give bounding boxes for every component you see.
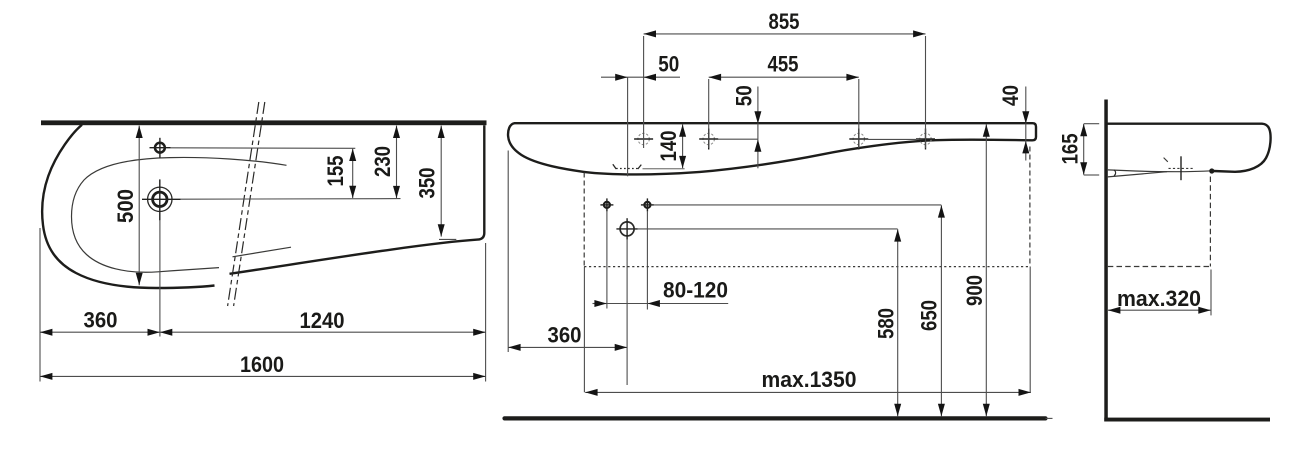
svg-text:650: 650 (917, 300, 942, 331)
dimension 1240 (plan) (160, 308, 486, 333)
mounting hole 2 (front) (699, 129, 718, 150)
svg-text:max.320: max.320 (1117, 286, 1201, 311)
dimension 230 (plan) (370, 126, 397, 199)
extension line left edge (plan) (39, 228, 41, 382)
dimension 350 (plan) (415, 126, 457, 240)
extension line through hole1 (855/50) (643, 36, 645, 148)
mounting hole 3 (front) (849, 129, 868, 150)
extension line right edge (plan) (485, 243, 487, 382)
dotted installation depth line (front) (584, 266, 1030, 268)
drain connection circle (front, in-wall) (616, 218, 637, 239)
hidden faucet hole centerline (side view) (1164, 156, 1194, 180)
svg-text:140: 140 (656, 131, 681, 162)
drain outlet tick (side view) (1114, 170, 1116, 176)
svg-text:80-120: 80-120 (663, 278, 728, 303)
dashed depth lines (side view) (1108, 177, 1211, 316)
wall fixing cross 2 (front, in-wall) (641, 198, 654, 211)
svg-text:1240: 1240 (300, 308, 345, 333)
drain leader line to 230 dim (181, 198, 401, 201)
dimension 500 (plan) (113, 126, 139, 286)
svg-text:350: 350 (415, 168, 440, 199)
faucet leader line to 155 dim (171, 147, 356, 150)
svg-text:580: 580 (874, 308, 899, 339)
faucet hole (plan) (150, 138, 171, 158)
svg-text:50: 50 (732, 85, 757, 106)
floor line (front) (505, 416, 1053, 420)
leader cross2 to 650 dim (654, 204, 941, 206)
leader hole3 to hole4 (868, 138, 916, 140)
basin profile (side view) (1106, 124, 1271, 177)
leader hole2 to 50 dim (718, 138, 758, 140)
hidden siphon arc (front) (613, 164, 642, 169)
wall fixing cross 1 (front, in-wall) (600, 198, 613, 211)
extension line x627 (50 dim left) (627, 77, 629, 176)
wall line (plan view) (41, 120, 487, 125)
svg-text:165: 165 (1057, 133, 1082, 164)
svg-text:900: 900 (962, 275, 987, 306)
svg-text:455: 455 (768, 52, 799, 77)
inner bowl outline (plan) (72, 157, 287, 272)
dimension 650 (front) (917, 205, 942, 416)
dimension 40 (front) (998, 85, 1026, 161)
dimension max.320 (side view) (1108, 286, 1211, 311)
dimension 50 horizontal (front) (601, 52, 680, 78)
break line right (234, 102, 265, 306)
svg-text:500: 500 (113, 189, 138, 223)
extension line through hole4 (855 right) (925, 36, 927, 148)
svg-text:1600: 1600 (240, 352, 284, 377)
dimension 900 (front) (962, 124, 987, 416)
extension drain down (626, 240, 628, 385)
reference dot (side view) (1209, 168, 1214, 173)
extension cross2 down (646, 211, 648, 309)
dimension 455 (front) (709, 52, 859, 78)
extension line left edge (front) (507, 151, 509, 353)
break line left (228, 102, 259, 306)
extension cross1 down (606, 211, 608, 308)
dimension 580 (front) (874, 229, 899, 416)
hidden dashed left extension (front) (583, 173, 585, 393)
dimension 155 (plan) (323, 149, 353, 199)
hidden dashed right extension (front) (1029, 147, 1031, 393)
basin profile outline (front) (508, 123, 1036, 174)
dimension 1600 (plan) (40, 352, 486, 377)
extension line through hole2 (455 left) (708, 79, 710, 148)
svg-text:855: 855 (769, 9, 800, 34)
leader drain to 580 dim (638, 228, 898, 230)
dimension 80-120 (front) (593, 278, 729, 304)
svg-text:155: 155 (323, 156, 348, 187)
floor line (side view) (1104, 418, 1270, 422)
wall line (side view) (1104, 100, 1108, 422)
mounting hole 1 (front) (634, 133, 653, 144)
dimension 360 (front) (508, 322, 627, 347)
basin outer outline right part (plan) (230, 125, 485, 274)
drain centerline down to 360 dim (159, 220, 161, 336)
svg-text:50: 50 (658, 52, 679, 77)
dimension 140 (front) (656, 124, 683, 168)
basin outer outline left part (plan) (42, 125, 214, 288)
svg-text:360: 360 (548, 322, 582, 347)
140 dim bottom reference line (643, 168, 685, 170)
dimension max.1350 (front) (585, 367, 1031, 393)
mounting hole 4 (front) (916, 129, 935, 150)
svg-text:max.1350: max.1350 (762, 367, 857, 392)
inner bowl tapered end line (plan) (233, 247, 292, 257)
dimension 165 (side view) (1057, 124, 1099, 175)
svg-text:360: 360 (84, 308, 118, 333)
extension line through hole3 (455 right) (858, 79, 860, 148)
svg-text:40: 40 (998, 85, 1023, 106)
svg-text:230: 230 (370, 146, 395, 177)
drain hole (plan) (142, 179, 181, 220)
dimension 360 (plan) (40, 308, 160, 333)
dimension 855 (front) (644, 9, 926, 34)
dimension 50 vertical (front) (732, 85, 758, 168)
